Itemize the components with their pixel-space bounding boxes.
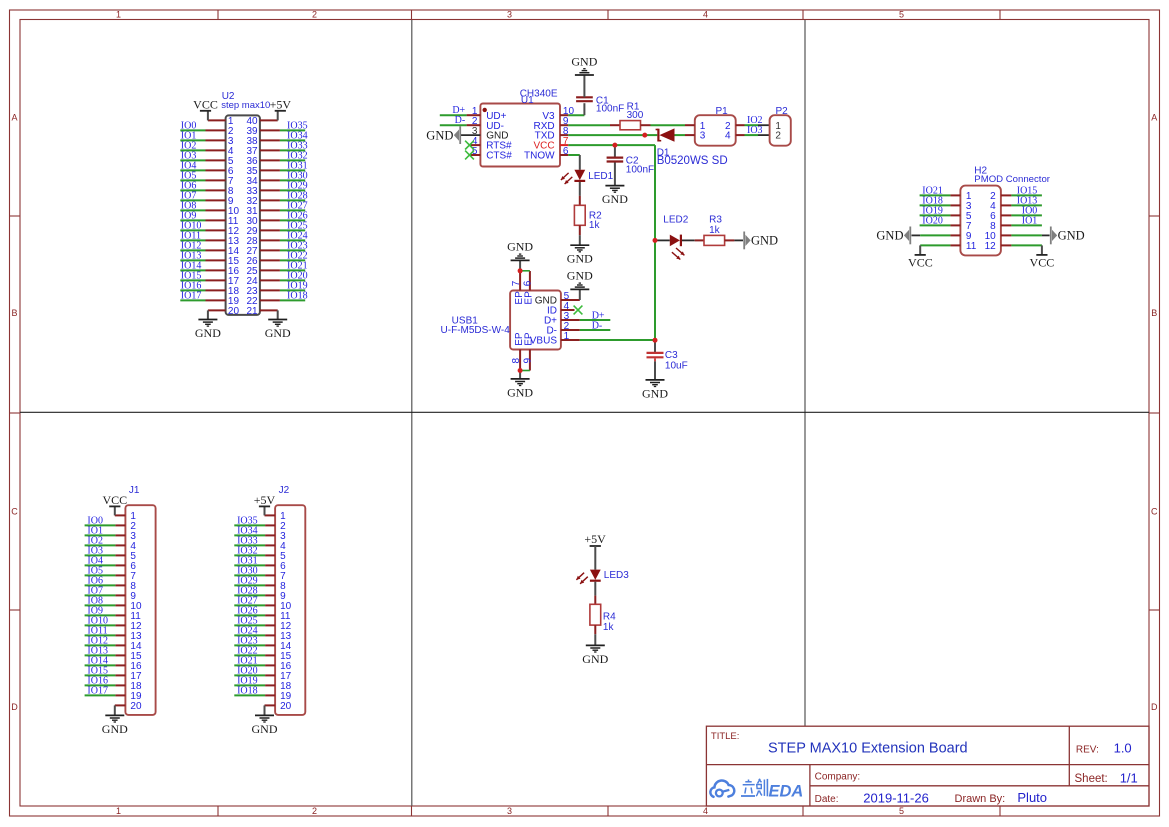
svg-text:+5V: +5V (270, 97, 292, 111)
svg-text:300: 300 (627, 110, 644, 121)
svg-text:1: 1 (116, 806, 121, 816)
wire + net label IO1 (J1 pin 3) (85, 525, 116, 536)
LCEDA logo (cloud + 立创EDA) (710, 779, 803, 801)
wire + net label IO19 (H2 pin 5) (920, 205, 951, 216)
svg-text:10uF: 10uF (665, 360, 688, 371)
LED LED1 (561, 170, 614, 184)
svg-text:3: 3 (700, 131, 706, 142)
wire + net label IO31 (U2 pin 35) (280, 160, 308, 171)
wire + net label D- (USB1 pin 2) (580, 321, 611, 332)
svg-text:4: 4 (703, 806, 708, 816)
svg-text:R4: R4 (603, 612, 616, 623)
svg-text:IO3: IO3 (747, 125, 763, 136)
wire + net label IO21 (H2 pin 1) (920, 185, 951, 196)
svg-text:VCC: VCC (908, 256, 933, 270)
+5V power symbol at U2 pin 40 (270, 97, 292, 120)
svg-text:TNOW: TNOW (524, 151, 555, 162)
svg-text:B0520WS SD: B0520WS SD (657, 155, 728, 167)
wire + net label IO8 (J1 pin 10) (85, 595, 116, 606)
ground (filled arrow) left of H2 (876, 227, 911, 245)
capacitor C3 10uF (647, 340, 688, 380)
wire LED2 to R3 (682, 239, 695, 241)
wire + net label IO14 (J1 pin 16) (85, 655, 116, 666)
wire + net label IO25 (U2 pin 29) (280, 220, 308, 231)
wire + net label IO15 (U2 pin 17) (180, 270, 205, 281)
wire + net label IO6 (J1 pin 8) (85, 575, 116, 586)
svg-text:GND: GND (602, 192, 628, 206)
wire + net label IO17 (J1 pin 19) (85, 685, 116, 696)
svg-text:A: A (1151, 113, 1157, 123)
connector H2 PMOD (950, 166, 1050, 256)
svg-text:CTS#: CTS# (486, 151, 512, 162)
wire + net label IO3 (U2 pin 5) (180, 150, 205, 161)
wire + net label IO35 (J2 pin 2) (234, 515, 265, 526)
wire + net label IO5 (U2 pin 7) (180, 170, 205, 181)
svg-text:2: 2 (312, 10, 317, 20)
connector P2 (770, 106, 791, 146)
svg-text:EDA: EDA (769, 782, 804, 800)
wire + net label IO2 (U2 pin 4) (180, 140, 205, 151)
svg-text:2019-11-26: 2019-11-26 (863, 790, 929, 805)
svg-text:IO18: IO18 (237, 685, 258, 696)
svg-text:P1: P1 (716, 106, 729, 117)
wire + net label IO18 (J2 pin 19) (234, 685, 265, 696)
+5V power symbol above LED3 (584, 532, 606, 569)
connector J2 (265, 485, 306, 715)
wire + net label IO21 (J2 pin 16) (234, 655, 265, 666)
svg-text:GND: GND (751, 234, 778, 248)
wire R1 to P1 pin 1 (651, 124, 686, 126)
svg-text:VCC: VCC (1030, 256, 1055, 270)
svg-text:GND: GND (426, 128, 453, 142)
svg-text:6: 6 (563, 146, 569, 157)
IC U1 CH340E (461, 89, 574, 167)
svg-text:20: 20 (280, 701, 292, 712)
wire + net label IO6 (U2 pin 8) (180, 180, 205, 191)
wire joining USB1 EP pins (top) (520, 270, 530, 272)
svg-text:D: D (1151, 702, 1158, 712)
svg-text:2: 2 (775, 131, 781, 142)
wire TXD (U1 pin 8 to D1) (568, 134, 657, 136)
svg-text:Sheet:: Sheet: (1075, 773, 1108, 785)
svg-text:B: B (11, 308, 17, 318)
wire + net label IO16 (U2 pin 18) (180, 280, 205, 291)
wire + net label IO28 (J2 pin 9) (234, 585, 265, 596)
no-connect X at U1 pin 5 (465, 151, 474, 160)
svg-text:8: 8 (511, 358, 522, 364)
svg-text:D: D (11, 702, 18, 712)
connector U2 (step max10, 40-pin) (206, 91, 280, 317)
svg-text:100nF: 100nF (596, 104, 624, 115)
wire + net label IO3 (J1 pin 5) (85, 545, 116, 556)
wire + net label IO20 (H2 pin 7) (920, 215, 951, 226)
connector J1 (115, 485, 156, 715)
svg-text:C: C (1151, 507, 1158, 517)
resistor R4 1k (590, 596, 616, 635)
svg-text:GND: GND (507, 240, 533, 254)
wire VCC net (U1 pin 7 right then down) (568, 145, 655, 340)
svg-text:STEP MAX10 Extension Board: STEP MAX10 Extension Board (768, 740, 968, 756)
svg-text:1/1: 1/1 (1120, 770, 1138, 785)
wire + net label IO18 (H2 pin 3) (920, 195, 951, 206)
svg-text:IO20: IO20 (922, 215, 943, 226)
wire + net label IO27 (J2 pin 10) (234, 595, 265, 606)
wire + net label IO32 (U2 pin 36) (280, 150, 308, 161)
svg-text:GND: GND (876, 229, 903, 243)
no-connect X at USB1 pin 4 (ID) (574, 306, 583, 315)
svg-text:6: 6 (522, 280, 533, 286)
wire R4 to ground (594, 634, 596, 645)
wire + net label IO33 (U2 pin 37) (280, 140, 308, 151)
section divider line (vertical) (411, 20, 413, 806)
wire + net label IO23 (U2 pin 27) (280, 240, 308, 251)
svg-text:+5V: +5V (584, 532, 606, 546)
svg-text:GND: GND (571, 54, 597, 68)
wire + net label IO26 (J2 pin 11) (234, 605, 265, 616)
LED LED2 (663, 214, 688, 259)
svg-text:D-: D- (592, 321, 603, 332)
wire H2 pin 11 to VCC (920, 245, 950, 254)
wire R3 to ground (734, 239, 743, 241)
wire + net label IO8 (U2 pin 10) (180, 200, 205, 211)
wire + net label IO10 (J1 pin 12) (85, 615, 116, 626)
ground (filled arrow) right of H2 (1050, 227, 1085, 245)
svg-text:IO17: IO17 (181, 290, 202, 301)
svg-text:VCC: VCC (102, 493, 127, 507)
svg-text:GND: GND (642, 386, 668, 400)
svg-text:1k: 1k (603, 622, 615, 633)
svg-text:4: 4 (725, 131, 731, 142)
svg-text:1k: 1k (589, 220, 601, 231)
wire + net label IO20 (U2 pin 24) (280, 270, 308, 281)
wire + net label IO24 (J2 pin 13) (234, 625, 265, 636)
svg-text:5: 5 (899, 10, 904, 20)
wire + net label IO4 (J1 pin 6) (85, 555, 116, 566)
wire V3 (U1 pin 10 to C1) (568, 103, 584, 115)
svg-text:GND: GND (1058, 229, 1085, 243)
section divider line (vertical) (804, 20, 806, 726)
wire + net label IO11 (U2 pin 13) (180, 230, 205, 241)
wire + net label IO29 (J2 pin 8) (234, 575, 265, 586)
svg-text:GND: GND (102, 722, 128, 736)
wire + net label IO13 (U2 pin 15) (180, 250, 205, 261)
wire + net label IO0 (J1 pin 2) (85, 515, 116, 526)
wire + net label IO15 (H2 pin 2) (1011, 185, 1042, 196)
ground (filled arrow) right of R3 (743, 232, 778, 250)
wire + net label IO34 (J2 pin 3) (234, 525, 265, 536)
svg-text:P2: P2 (776, 106, 789, 117)
resistor R2 1k (574, 196, 602, 235)
wire + net label IO22 (J2 pin 15) (234, 645, 265, 656)
svg-text:step max10: step max10 (221, 100, 270, 111)
svg-text:J2: J2 (279, 485, 290, 496)
resistor R1 300 (610, 102, 651, 130)
svg-text:GND: GND (567, 269, 593, 283)
wire LED3 to R4 (594, 582, 596, 596)
svg-text:B: B (1151, 308, 1157, 318)
svg-text:+5V: +5V (254, 493, 276, 507)
svg-text:3: 3 (507, 10, 512, 20)
svg-text:TITLE:: TITLE: (711, 731, 740, 742)
svg-text:A: A (11, 113, 17, 123)
svg-text:12: 12 (985, 241, 997, 252)
svg-text:IO18: IO18 (287, 290, 308, 301)
svg-text:Date:: Date: (815, 794, 839, 805)
VCC power symbol at J1 pin 1 (102, 493, 127, 515)
VCC power symbol at U2 pin 1 (193, 97, 218, 120)
svg-text:VBUS: VBUS (530, 336, 558, 347)
wire RXD (U1 pin 9 to R1) (568, 124, 610, 126)
svg-text:1: 1 (564, 331, 570, 342)
wire + net label IO1 (H2 pin 8) (1011, 215, 1042, 226)
wire + net label IO34 (U2 pin 38) (280, 130, 308, 141)
wire + net label IO14 (U2 pin 16) (180, 260, 205, 271)
ground at J2 pin 20 (252, 705, 278, 735)
wire LED1 to R2 (579, 182, 581, 196)
section divider line (horizontal) (20, 411, 1149, 413)
wire + net label IO9 (U2 pin 11) (180, 210, 205, 221)
svg-text:GND: GND (265, 326, 291, 340)
wire + net label IO4 (U2 pin 6) (180, 160, 205, 171)
svg-text:20: 20 (130, 701, 142, 712)
wire + net label IO32 (J2 pin 5) (234, 545, 265, 556)
svg-text:2: 2 (312, 806, 317, 816)
ground at U2 pin 20 (195, 310, 221, 340)
resistor R3 1k (695, 214, 735, 245)
svg-text:C: C (11, 507, 18, 517)
USB connector USB1 U-F-M5DS-W-4 (441, 271, 580, 371)
svg-text:100nF: 100nF (626, 164, 654, 175)
wire + net label IO0 (U2 pin 2) (180, 120, 205, 131)
svg-text:GND: GND (567, 252, 593, 266)
wire + net label IO2 (J1 pin 4) (85, 535, 116, 546)
junction VCC net / C2 tap (612, 143, 617, 148)
ground at U2 pin 21 (265, 310, 291, 340)
ground (filled arrow) at U1 pin 3 (426, 126, 461, 144)
wire + net label IO20 (J2 pin 17) (234, 665, 265, 676)
svg-text:IO1: IO1 (1022, 215, 1038, 226)
wire + net label IO13 (H2 pin 4) (1011, 195, 1042, 206)
junction USB1 EP top (518, 268, 523, 273)
diode D1 B0520WS SD (656, 128, 728, 167)
capacitor C2 100nF (607, 145, 655, 186)
svg-text:LED3: LED3 (604, 570, 629, 581)
wire + net label IO29 (U2 pin 33) (280, 180, 308, 191)
wire VCC junction to LED2 (655, 239, 670, 241)
VCC power symbol right of H2 (1030, 255, 1055, 270)
wire + net label IO27 (U2 pin 31) (280, 200, 308, 211)
wire + net label IO3 (P1 pin 4 to P2 pin 2) (745, 125, 770, 136)
svg-text:1.0: 1.0 (1114, 740, 1132, 755)
wire + net label IO12 (J1 pin 14) (85, 635, 116, 646)
wire + net label IO2 (P1 pin 2 to P2 pin 1) (745, 115, 770, 126)
svg-text:9: 9 (522, 358, 533, 364)
junction on TXD net at D1 (642, 133, 647, 138)
svg-text:PMOD Connector: PMOD Connector (974, 174, 1051, 185)
wire + net label IO25 (J2 pin 12) (234, 615, 265, 626)
wire + net label IO16 (J1 pin 18) (85, 675, 116, 686)
svg-text:J1: J1 (129, 485, 140, 496)
ground below USB1 (507, 371, 533, 400)
svg-text:GND: GND (582, 652, 608, 666)
title block (706, 726, 1149, 806)
svg-text:LED1: LED1 (588, 171, 613, 182)
svg-text:D-: D- (455, 115, 466, 126)
ground below C3 (642, 380, 668, 400)
wire R2 to ground (579, 235, 581, 245)
svg-text:3: 3 (507, 806, 512, 816)
svg-text:GND: GND (195, 326, 221, 340)
wire + net label D+ (U1 pin 1) (440, 105, 467, 116)
svg-text:4: 4 (703, 10, 708, 20)
wire + net label IO19 (J2 pin 18) (234, 675, 265, 686)
wire + net label IO1 (U2 pin 3) (180, 130, 205, 141)
wire + net label IO30 (J2 pin 7) (234, 565, 265, 576)
+5V power symbol at J2 pin 1 (254, 493, 276, 515)
connector P1 (685, 106, 745, 146)
wire H2 pin 9 to ground (912, 234, 951, 236)
wire + net label IO33 (J2 pin 4) (234, 535, 265, 546)
wire + net label IO7 (J1 pin 9) (85, 585, 116, 596)
wire + net label IO17 (U2 pin 19) (180, 290, 205, 301)
wire + net label D- (U1 pin 2) (440, 115, 467, 126)
capacitor C1 100nF (576, 75, 624, 115)
svg-text:Pluto: Pluto (1017, 790, 1047, 805)
wire H2 pin 10 to ground (1011, 234, 1049, 236)
svg-text:VCC: VCC (193, 97, 218, 111)
svg-text:REV:: REV: (1076, 744, 1099, 755)
wire + net label IO9 (J1 pin 11) (85, 605, 116, 616)
junction USB1 EP bottom (518, 368, 523, 373)
wire + net label IO19 (U2 pin 23) (280, 280, 308, 291)
junction VCC net / VBUS / C3 (653, 338, 658, 343)
svg-text:Company:: Company: (815, 772, 861, 783)
svg-text:1k: 1k (709, 225, 721, 236)
svg-text:LED2: LED2 (663, 214, 688, 225)
svg-text:Drawn By:: Drawn By: (955, 793, 1006, 805)
wire + net label IO26 (U2 pin 30) (280, 210, 308, 221)
wire + net label IO24 (U2 pin 28) (280, 230, 308, 241)
wire + net label IO31 (J2 pin 6) (234, 555, 265, 566)
wire + net label IO5 (J1 pin 7) (85, 565, 116, 576)
svg-text:11: 11 (966, 241, 977, 252)
wire H2 pin 12 to VCC (1011, 245, 1042, 254)
ground above USB1 (507, 240, 533, 269)
LED LED3 (576, 570, 629, 584)
svg-text:U-F-M5DS-W-4: U-F-M5DS-W-4 (441, 325, 511, 336)
svg-text:IO17: IO17 (87, 685, 108, 696)
wire + net label IO13 (J1 pin 15) (85, 645, 116, 656)
wire + net label IO23 (J2 pin 14) (234, 635, 265, 646)
wire + net label IO15 (J1 pin 17) (85, 665, 116, 676)
svg-text:GND: GND (507, 385, 533, 399)
junction VCC net / LED2 tap (653, 238, 658, 243)
wire + net label IO7 (U2 pin 9) (180, 190, 205, 201)
ground at J1 pin 20 (102, 705, 128, 735)
ground below R4 (582, 645, 608, 665)
svg-text:U1: U1 (521, 95, 534, 106)
wire + net label IO0 (H2 pin 6) (1011, 205, 1042, 216)
ground below C2 (602, 186, 628, 206)
wire + net label IO11 (J1 pin 13) (85, 625, 116, 636)
VCC power symbol left of H2 (908, 255, 933, 270)
ground below R2 (567, 245, 593, 265)
svg-text:20: 20 (228, 306, 240, 317)
wire TNOW (U1 pin 6 to LED1) (568, 155, 580, 170)
svg-text:21: 21 (246, 306, 258, 317)
wire + net label IO21 (U2 pin 25) (280, 260, 308, 271)
wire joining USB1 EP pins (bottom) (520, 370, 530, 372)
ground above C1 (571, 54, 597, 75)
wire + net label IO10 (U2 pin 12) (180, 220, 205, 231)
svg-text:1: 1 (116, 10, 121, 20)
svg-text:R3: R3 (709, 214, 722, 225)
no-connect X at U1 pin 4 (465, 141, 474, 150)
ground at USB1 pin 5 (567, 269, 593, 300)
wire + net label IO18 (U2 pin 22) (280, 290, 308, 301)
wire + net label IO22 (U2 pin 26) (280, 250, 308, 261)
svg-text:EP: EP (524, 291, 535, 305)
wire + net label IO12 (U2 pin 14) (180, 240, 205, 251)
wire + net label D+ (USB1 pin 3) (580, 311, 611, 322)
wire + net label IO30 (U2 pin 34) (280, 170, 308, 181)
wire VBUS (USB1 pin 1 to VCC net) (580, 339, 655, 341)
svg-text:7: 7 (511, 280, 522, 286)
svg-text:5: 5 (899, 806, 904, 816)
wire + net label IO35 (U2 pin 39) (280, 120, 308, 131)
svg-text:GND: GND (252, 722, 278, 736)
wire + net label IO28 (U2 pin 32) (280, 190, 308, 201)
